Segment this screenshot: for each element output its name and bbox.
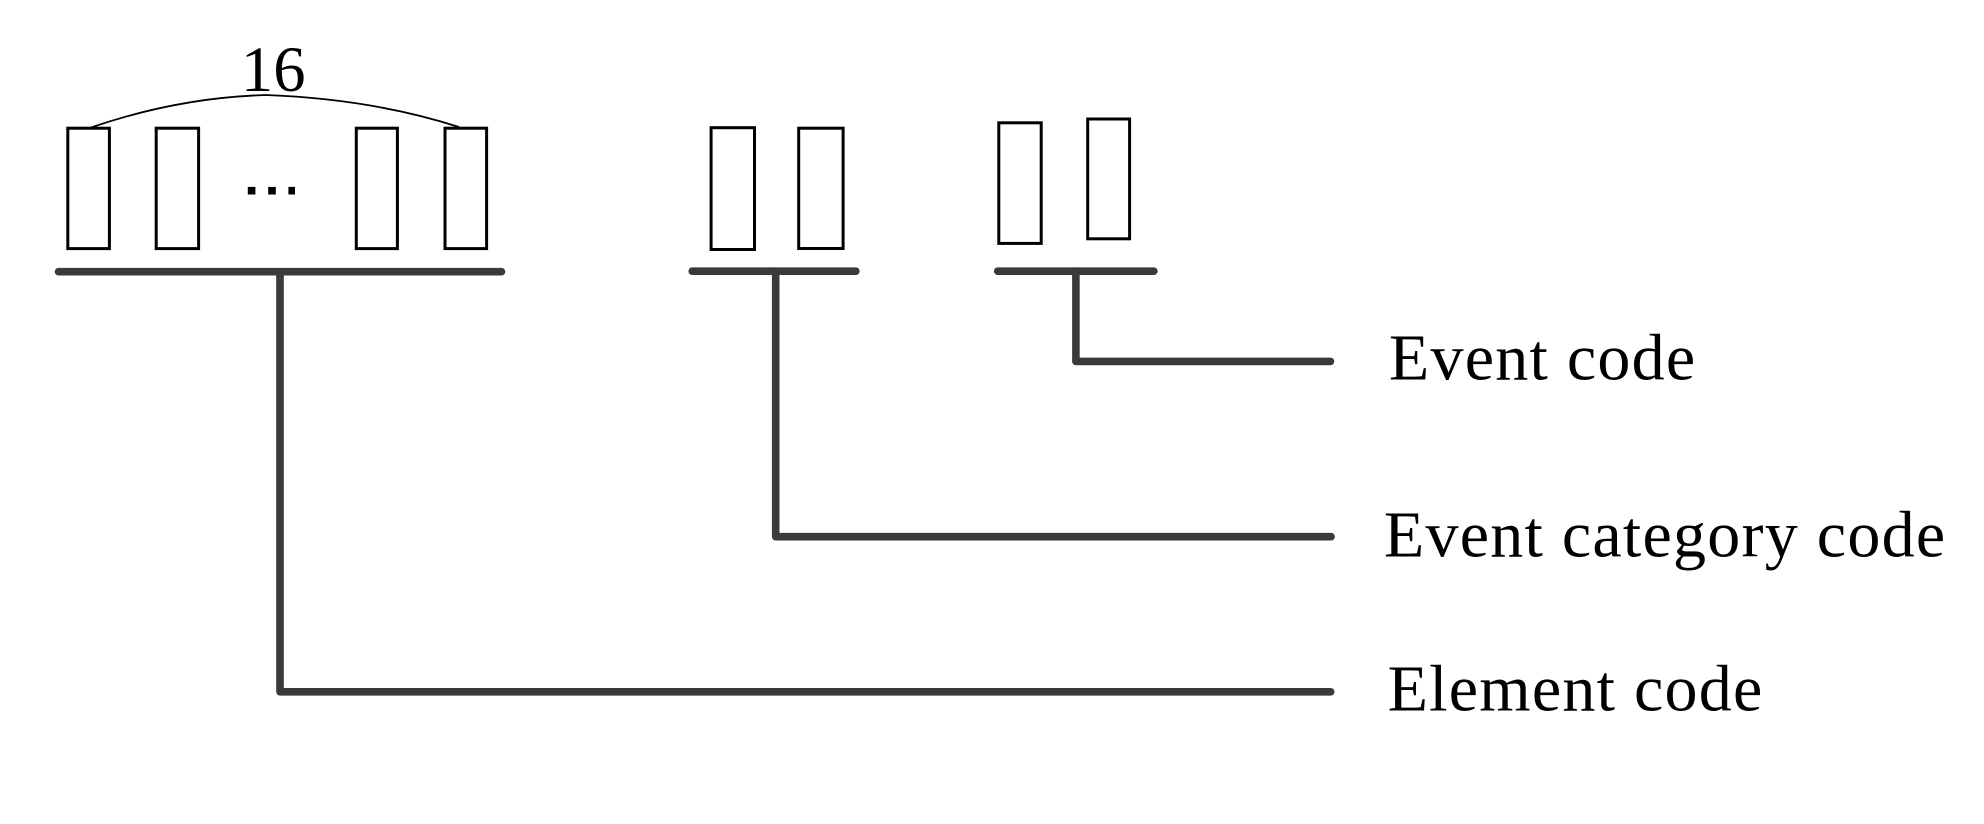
bit box 4 [445, 128, 487, 248]
ellipsis dots [248, 187, 256, 195]
leader element code [280, 272, 1331, 692]
leader event code [1076, 271, 1331, 361]
brace for 16 bits [91, 95, 459, 128]
bit box 2 [156, 128, 198, 248]
svg-text:Element code: Element code [1388, 653, 1764, 726]
bit box 6 [799, 128, 843, 248]
bit box 1 [68, 128, 110, 248]
bit box 5 [711, 128, 754, 250]
svg-text:16: 16 [241, 33, 306, 105]
leader event category code [776, 271, 1331, 537]
svg-text:Event category code: Event category code [1384, 499, 1946, 572]
bit box 7 [999, 123, 1041, 244]
underline group 2 [692, 267, 856, 275]
bit box 3 [356, 128, 397, 248]
underline group 3 [998, 267, 1154, 275]
bit box 8 [1088, 119, 1130, 239]
underline group 1 [59, 268, 502, 276]
svg-text:Event code: Event code [1389, 322, 1697, 395]
